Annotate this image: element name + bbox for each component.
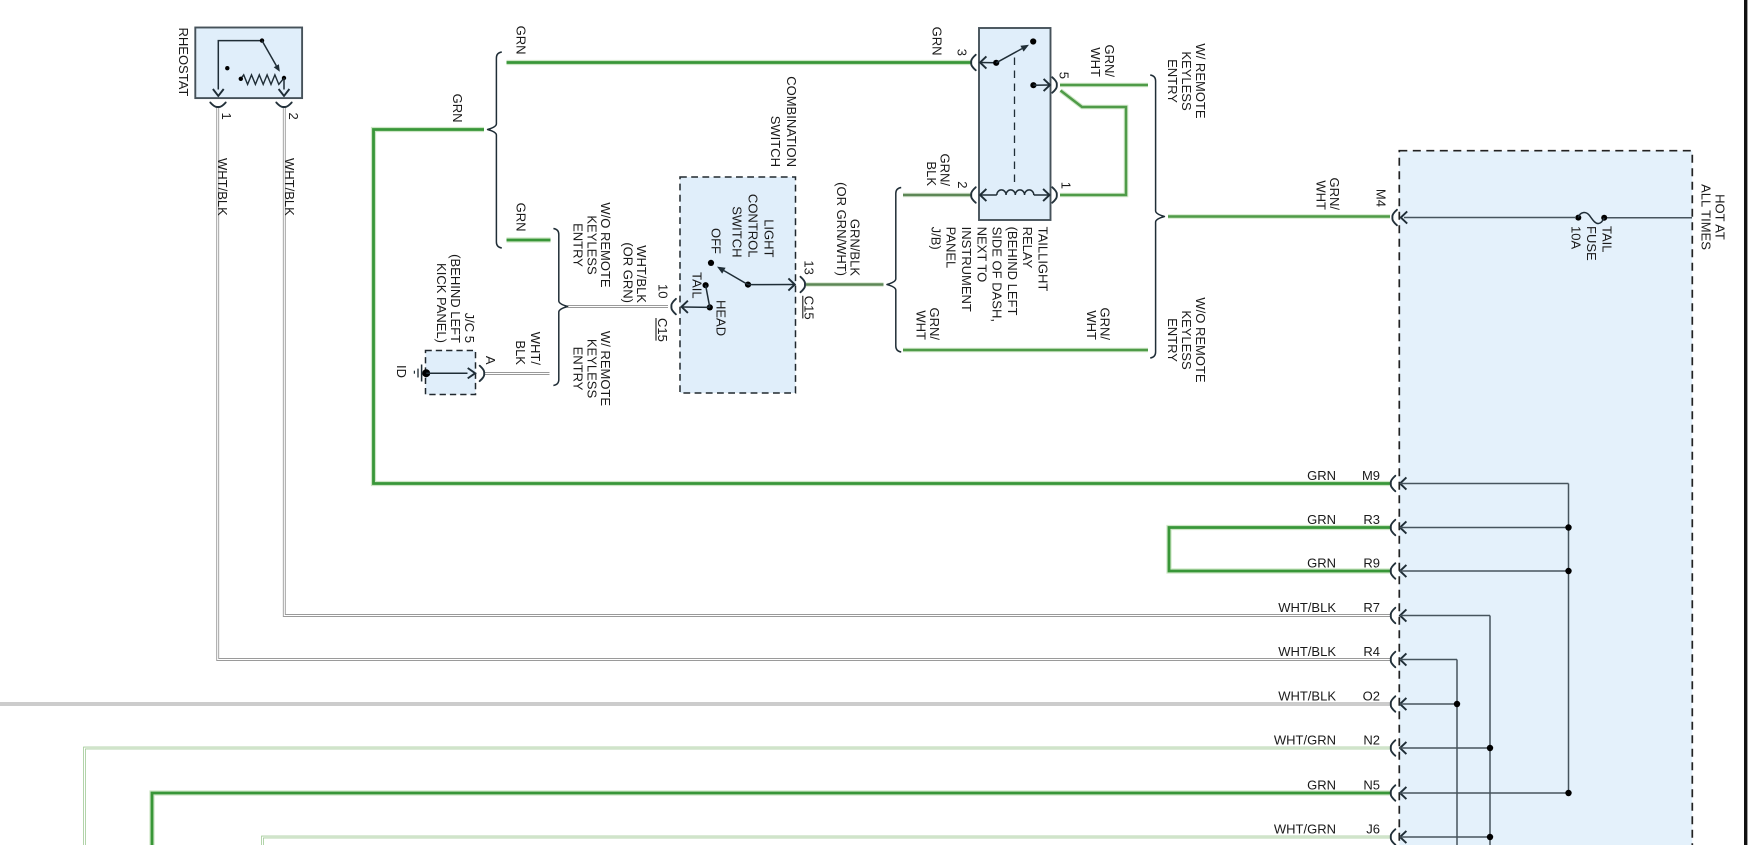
relay pin 3 connector	[971, 55, 976, 70]
connector J6	[1391, 829, 1396, 844]
svg-text:J/B): J/B)	[928, 227, 943, 250]
svg-text:R3: R3	[1363, 512, 1380, 527]
svg-text:KEYLESS: KEYLESS	[1179, 51, 1194, 111]
rheostat box	[195, 28, 302, 99]
rheostat symbol: resistor zigzag	[241, 75, 284, 85]
svg-text:GRN: GRN	[1307, 556, 1336, 571]
rheostat symbol: wiper dot	[260, 38, 264, 42]
wire GRN/WHT brace3 to brace4 (w/o keyless)	[903, 348, 1148, 353]
switch wiper arrow to OFF	[724, 271, 748, 285]
svg-text:C15: C15	[802, 296, 817, 320]
svg-text:ENTRY: ENTRY	[1165, 318, 1180, 362]
svg-text:WHT: WHT	[913, 310, 928, 340]
svg-text:WHT: WHT	[1084, 310, 1099, 340]
svg-text:FUSE: FUSE	[1584, 226, 1599, 261]
svg-text:TAILLIGHT: TAILLIGHT	[1036, 227, 1051, 292]
svg-text:GRN: GRN	[1307, 512, 1336, 527]
svg-text:SIDE OF DASH,: SIDE OF DASH,	[990, 227, 1005, 322]
wire GRN brace1 to brace2	[507, 237, 551, 242]
svg-text:WHT/BLK: WHT/BLK	[634, 245, 649, 303]
wire WHT/GRN J6 (corner down off-page)	[263, 837, 1391, 845]
wire WHT/GRN N2 (corner down off-page)	[85, 748, 1391, 845]
J/B line at R4	[1400, 653, 1406, 665]
svg-text:N5: N5	[1363, 778, 1380, 793]
switch contact OFF dot	[708, 260, 714, 266]
connector R4	[1391, 652, 1396, 667]
svg-text:NEXT TO: NEXT TO	[974, 227, 989, 283]
junction block J/B (fuse box, dashed)	[1399, 151, 1692, 845]
rheostat pin 1 connector	[210, 103, 225, 108]
relay pin 5 connector	[1052, 77, 1057, 92]
svg-text:W/O REMOTE: W/O REMOTE	[1193, 297, 1208, 383]
svg-text:LIGHT: LIGHT	[761, 219, 776, 257]
svg-text:RELAY: RELAY	[1020, 227, 1035, 269]
svg-text:KEYLESS: KEYLESS	[584, 215, 599, 275]
J/B line at M9	[1400, 477, 1406, 489]
page border (right edge)	[1744, 0, 1747, 845]
svg-text:10: 10	[655, 284, 670, 298]
svg-text:SWITCH: SWITCH	[729, 206, 744, 257]
rheostat pin 2 connector	[276, 103, 291, 108]
junction dot J/C5	[422, 369, 430, 377]
taillight relay box	[979, 28, 1051, 220]
svg-text:OFF: OFF	[708, 228, 723, 254]
rheostat symbol: pin2 leg	[283, 78, 285, 90]
J/B bus from M9 to N5	[1568, 484, 1570, 794]
J/B bus from R7 down	[1489, 616, 1491, 845]
junction connector J/C 5 box (dashed)	[426, 351, 476, 395]
svg-text:TAIL: TAIL	[1599, 226, 1614, 253]
J/B line at R9	[1400, 565, 1406, 577]
svg-text:RHEOSTAT: RHEOSTAT	[176, 28, 191, 97]
rheostat symbol: stray contact dot	[225, 66, 229, 70]
svg-text:O2: O2	[1363, 689, 1380, 704]
brace split GRN/BLK (relay feeds)	[887, 188, 901, 353]
switch common contact dot	[745, 282, 751, 288]
svg-text:WHT/: WHT/	[528, 332, 543, 366]
svg-text:BLK: BLK	[513, 340, 528, 365]
svg-text:HEAD: HEAD	[713, 300, 728, 336]
wire WHT/BLK O2 from off-page	[0, 703, 1390, 706]
wire GRN/BLK switch pin13 to brace3	[806, 282, 884, 286]
J/B line at N2	[1400, 742, 1406, 754]
svg-text:(BEHIND LEFT: (BEHIND LEFT	[1005, 227, 1020, 316]
rheostat symbol: pin1 leg + top bar	[218, 41, 262, 90]
connector N5	[1391, 785, 1396, 800]
svg-text:2: 2	[955, 181, 970, 188]
connector M9	[1391, 476, 1396, 491]
connector M4	[1392, 210, 1397, 225]
svg-text:WHT/BLK: WHT/BLK	[215, 158, 230, 216]
svg-text:J6: J6	[1366, 822, 1380, 837]
switch contact HEAD dot	[707, 304, 713, 310]
connector O2	[1391, 696, 1396, 711]
wire GRN R3-R9 jumper (U-shape)	[1169, 528, 1390, 572]
switch line HEAD to pin10	[683, 306, 710, 308]
svg-text:M4: M4	[1373, 189, 1388, 207]
relay coil	[980, 189, 986, 201]
J/B line at R7	[1400, 609, 1406, 621]
rheostat symbol: resistor end dots	[239, 77, 243, 81]
svg-text:1: 1	[219, 113, 234, 120]
svg-text:WHT/GRN: WHT/GRN	[1274, 733, 1336, 748]
relay pin5 line	[1033, 84, 1049, 86]
svg-text:WHT/GRN: WHT/GRN	[1274, 822, 1336, 837]
J/B bus junction dots (M9 bus)	[1565, 524, 1571, 530]
svg-text:GRN: GRN	[514, 26, 529, 55]
relay pin5 contact dot	[1030, 82, 1036, 88]
wire WHT/BLK rheostat pin2 to R7	[284, 108, 1390, 616]
svg-text:W/ REMOTE: W/ REMOTE	[1193, 43, 1208, 118]
brace split GRN (left)	[488, 52, 502, 248]
svg-text:2: 2	[286, 113, 301, 120]
J/B line at J6	[1400, 831, 1406, 843]
brace merge to switch pin10	[553, 229, 567, 386]
switch pin 10 connector	[671, 299, 676, 314]
svg-text:5: 5	[1056, 72, 1071, 79]
svg-text:ALL TIMES: ALL TIMES	[1698, 184, 1713, 250]
svg-text:KICK PANEL): KICK PANEL)	[434, 263, 449, 343]
brace merge GRN/WHT to M4	[1150, 75, 1164, 358]
svg-text:CONTROL: CONTROL	[745, 194, 760, 258]
svg-text:SWITCH: SWITCH	[768, 116, 783, 167]
J/B feed line from HOT AT ALL TIMES	[1607, 217, 1692, 219]
svg-text:ID: ID	[394, 365, 409, 378]
relay movable contact arrow	[996, 49, 1022, 63]
wire GRN/WHT relay pin5 to brace4	[1060, 83, 1148, 88]
svg-text:(BEHIND LEFT: (BEHIND LEFT	[448, 254, 463, 343]
svg-text:W/ REMOTE: W/ REMOTE	[598, 331, 613, 406]
connector R9	[1391, 563, 1396, 578]
svg-text:C15: C15	[655, 318, 670, 342]
svg-text:KEYLESS: KEYLESS	[584, 339, 599, 399]
svg-text:A: A	[483, 356, 498, 365]
TAIL fuse 10A	[1575, 215, 1581, 221]
relay pin 2 connector	[971, 187, 976, 202]
svg-text:GRN: GRN	[1307, 468, 1336, 483]
J/B line at R3	[1400, 521, 1406, 533]
svg-text:13: 13	[802, 260, 817, 274]
svg-text:J/C 5: J/C 5	[462, 313, 477, 343]
wire GRN/WHT brace4 to M4	[1168, 214, 1390, 219]
svg-text:PANEL: PANEL	[944, 227, 959, 269]
svg-text:WHT/BLK: WHT/BLK	[282, 158, 297, 216]
svg-text:GRN: GRN	[450, 94, 465, 123]
svg-text:GRN: GRN	[1307, 778, 1336, 793]
svg-text:INSTRUMENT: INSTRUMENT	[959, 227, 974, 312]
wire GRN/WHT pin5-pin1 jumper	[1060, 91, 1126, 196]
svg-text:WHT/BLK: WHT/BLK	[1278, 600, 1336, 615]
wire WHT/BLK rheostat pin1 to R4	[218, 108, 1390, 660]
svg-text:TAIL: TAIL	[690, 272, 705, 299]
svg-text:WHT: WHT	[1313, 180, 1328, 210]
svg-text:GRN/: GRN/	[1102, 45, 1117, 78]
svg-text:WHT: WHT	[1088, 47, 1103, 77]
switch pin 13 connector	[801, 277, 806, 292]
svg-text:R9: R9	[1363, 556, 1380, 571]
switch contact TAIL dot	[703, 282, 709, 288]
J/B bus junction dot (R4 bus at O2)	[1454, 701, 1460, 707]
J/C5 pin A connector	[480, 366, 485, 381]
wire GRN main: brace to M9 (L-shape)	[374, 130, 1391, 484]
relay pin 1 connector	[1052, 187, 1057, 202]
svg-text:W/O REMOTE: W/O REMOTE	[598, 202, 613, 288]
svg-text:BLK: BLK	[924, 161, 939, 186]
svg-text:WHT/BLK: WHT/BLK	[1278, 644, 1336, 659]
relay contact dot	[993, 60, 999, 66]
J/B line at O2	[1400, 698, 1406, 710]
J/B line at N5	[1400, 787, 1406, 799]
ground ID (at J/C5)	[421, 365, 423, 382]
svg-text:HOT AT: HOT AT	[1712, 194, 1727, 240]
svg-text:R7: R7	[1363, 600, 1380, 615]
svg-text:ENTRY: ENTRY	[1165, 59, 1180, 103]
svg-text:1: 1	[1058, 182, 1073, 189]
wire GRN N5 (corner down off-page)	[152, 793, 1390, 845]
svg-text:COMBINATION: COMBINATION	[784, 76, 799, 167]
wire GRN rheostat branch to relay pin 3	[507, 60, 971, 65]
svg-text:WHT/BLK: WHT/BLK	[1278, 689, 1336, 704]
svg-text:(OR GRN): (OR GRN)	[620, 242, 635, 303]
connector N2	[1391, 740, 1396, 755]
J/B line fuse to M4	[1404, 217, 1576, 219]
J/B bus from R4 down	[1456, 660, 1458, 845]
svg-text:ENTRY: ENTRY	[571, 347, 586, 391]
connector R3	[1391, 520, 1396, 535]
svg-text:R4: R4	[1363, 644, 1380, 659]
relay pin3 arrow+contact	[980, 56, 986, 68]
wire WHT/BLK brace2 to switch pin10	[568, 305, 669, 308]
svg-text:10A: 10A	[1568, 226, 1583, 249]
svg-text:GRN: GRN	[929, 27, 944, 56]
wire GRN/BLK brace3 to relay pin 2	[903, 193, 971, 197]
switch line common to pin13	[748, 284, 794, 286]
J/B bus junction dots (R7 bus)	[1487, 745, 1493, 751]
light control switch box (dashed)	[680, 177, 796, 393]
relay link (dashed)	[1014, 58, 1016, 184]
connector R7	[1391, 608, 1396, 623]
relay fixed contact dot (top)	[1030, 38, 1036, 44]
svg-text:ENTRY: ENTRY	[571, 223, 586, 267]
svg-text:M9: M9	[1362, 468, 1380, 483]
svg-text:GRN: GRN	[514, 203, 529, 232]
rheostat symbol: wiper arrow	[262, 41, 276, 66]
svg-text:(OR GRN/WHT): (OR GRN/WHT)	[834, 182, 849, 276]
switch TAIL-HEAD link	[706, 285, 710, 307]
svg-text:KEYLESS: KEYLESS	[1179, 310, 1194, 370]
svg-text:N2: N2	[1363, 733, 1380, 748]
J/C5 internal wire to pin A	[426, 372, 467, 374]
svg-text:3: 3	[955, 49, 970, 56]
wire WHT/BLK J/C5 pin A to brace2	[485, 372, 550, 375]
